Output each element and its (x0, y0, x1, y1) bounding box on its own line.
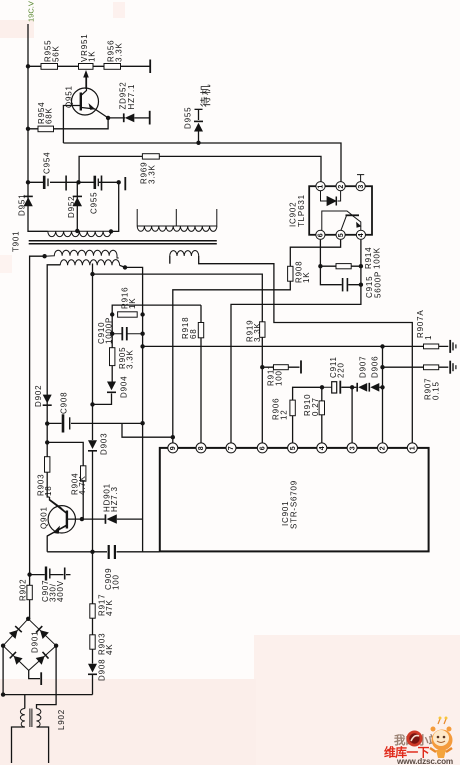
optocoupler IC902 LED (321, 191, 341, 206)
wire Q901 base row y519.1 (67, 518, 143, 520)
wire Q901 emitter (47, 525, 67, 552)
wire top rail y66.3 (28, 65, 150, 67)
IC902 pin 5 (336, 230, 345, 239)
svg-text:1K: 1K (88, 51, 97, 62)
resistor R918 (198, 323, 203, 338)
svg-text:5: 5 (290, 446, 297, 450)
svg-text:C954: C954 (43, 152, 52, 174)
label R969 3.3K (140, 162, 157, 184)
svg-text:3.3K: 3.3K (126, 349, 135, 369)
IC901 pin 4 (317, 443, 327, 453)
wire AC lead right (37, 727, 49, 763)
WIRES1 (28, 24, 448, 619)
diode D906 (369, 383, 380, 392)
bridge rectifier D901 (3, 619, 56, 671)
label R954 68K (37, 102, 54, 124)
transformer T901 secondary winding row2 (60, 260, 119, 274)
capacitor C910 (112, 327, 142, 340)
wire bridge left vertex down (3, 646, 92, 695)
label IC901 STR-S6709 (281, 480, 299, 529)
label R903 18 (37, 474, 54, 496)
optocoupler IC902 box (309, 186, 372, 235)
svg-text:HZ7.1: HZ7.1 (127, 84, 136, 110)
svg-text:Q951: Q951 (65, 85, 74, 108)
resistor R954 (38, 126, 54, 132)
label R956 3.3K (107, 40, 124, 62)
label R906 12 (272, 398, 289, 420)
label R907A 1 (416, 310, 433, 340)
wire row1-right left stub (169, 256, 171, 264)
svg-text:D907: D907 (359, 356, 368, 378)
svg-text:R907A: R907A (416, 310, 425, 338)
svg-text:1: 1 (424, 335, 433, 340)
IC902 pin 6 (316, 230, 325, 239)
optocoupler IC902 phototransistor (322, 211, 361, 230)
label R919 3.3K (246, 320, 263, 342)
wire R906 top row y387.3 (293, 387, 322, 443)
transistor Q951 (72, 77, 109, 118)
label R908 1K (295, 261, 312, 283)
wire IC902 pin6 down (320, 240, 361, 285)
resistor R956 (104, 64, 121, 70)
wire R907A row y347 (383, 345, 449, 347)
diode D908 (88, 664, 97, 675)
svg-text:220: 220 (337, 362, 346, 378)
svg-text:3.3K: 3.3K (253, 322, 262, 342)
watermark mascot (430, 717, 453, 759)
terminal bar after ZD952 (149, 111, 151, 125)
wire D906 to pin2 (379, 386, 382, 388)
svg-text:18: 18 (44, 486, 53, 497)
LABELS1 (12, 34, 441, 529)
svg-text:D902: D902 (34, 385, 43, 407)
diode D955 (194, 109, 203, 132)
wire rowB left lead to D902 R903 (47, 265, 60, 457)
svg-text:4: 4 (358, 233, 365, 237)
inductor L902 windings (20, 709, 41, 728)
label R913 4K (98, 633, 115, 655)
svg-text:1: 1 (318, 185, 325, 189)
svg-text:2: 2 (380, 446, 387, 450)
label C915 5600P (365, 271, 383, 298)
wire primary left lead (30, 256, 45, 619)
svg-text:D904: D904 (120, 376, 129, 398)
label R911 100 (267, 364, 284, 386)
wire D955 stub (198, 110, 200, 143)
wire R919 to pin6 (261, 337, 263, 443)
resistor R955 (41, 64, 58, 70)
wire cap row y182.3 (28, 181, 119, 183)
wire rowB right end (120, 265, 143, 552)
svg-text:4: 4 (319, 446, 326, 450)
svg-text:D952: D952 (67, 196, 76, 218)
svg-text:D908: D908 (98, 659, 107, 681)
wire ZD952 to terminal (134, 117, 149, 119)
wire choke left riser (24, 695, 26, 709)
svg-text:3: 3 (358, 185, 365, 189)
resistor R904 (81, 466, 86, 481)
capacitor C908 (63, 414, 70, 432)
IC901 pin 7 (226, 443, 236, 453)
IC902 pin 3 (356, 182, 365, 191)
svg-text:6: 6 (318, 233, 325, 237)
wire Q951 base branch x63.4 (63, 106, 80, 144)
svg-text:8: 8 (198, 446, 205, 450)
transistor Q901 (47, 500, 75, 537)
wire W2 y156.4 to optocoupler pin1 (79, 156, 321, 182)
label R910 0.27 (303, 394, 320, 416)
svg-text:1K: 1K (302, 272, 311, 283)
svg-text:3.3K: 3.3K (115, 42, 124, 62)
resistor R911 (274, 365, 289, 370)
svg-text:L902: L902 (57, 709, 66, 730)
label R905 3.3K (118, 347, 135, 369)
diode D902 (43, 395, 52, 406)
svg-text:5: 5 (338, 233, 345, 237)
wire IC902 pin4 to pin7 (WC) (231, 240, 361, 443)
label R907 0.15 (424, 378, 441, 400)
transformer T901 core (29, 241, 217, 244)
PATCHES (0, 20, 34, 38)
capacitor C909 (109, 545, 115, 559)
IC902 pin 2 (336, 182, 345, 191)
svg-text:2: 2 (338, 185, 345, 189)
diode D904 (107, 382, 116, 394)
wire W1 y143 to optocoupler pin2 (63, 143, 341, 182)
IC902 pin 1 (316, 182, 325, 191)
wire C907 branch y574.6 (30, 574, 71, 576)
wire bridge bottom stub (29, 670, 40, 678)
svg-text:100: 100 (275, 370, 284, 386)
svg-text:HZ7.3: HZ7.3 (110, 486, 119, 512)
ground R907 (449, 361, 456, 374)
transformer T901 secondary winding row1 (45, 250, 119, 258)
svg-text:400V: 400V (56, 580, 65, 602)
wire bridge right vertex to choke (37, 646, 57, 709)
svg-text:R902: R902 (19, 579, 28, 601)
resistor R908 (288, 266, 293, 281)
wire WE pin9 to R908 (173, 240, 341, 443)
svg-text:T901: T901 (12, 231, 21, 252)
wire WB y345.9 (143, 345, 383, 347)
wire R911 branch y367.2 (262, 366, 299, 368)
wire R904 branch (47, 442, 83, 519)
svg-text:TLP631: TLP631 (297, 194, 306, 227)
transformer T901 primary winding right with leads (137, 209, 217, 231)
resistor R919 (260, 322, 265, 338)
LABELS2 (19, 1, 138, 730)
transformer T901 primary winding left (48, 231, 111, 236)
ground R907A (449, 340, 456, 353)
resistor R902 (27, 585, 32, 599)
label ZD952 HZ7.1 (119, 81, 136, 109)
svg-text:待机: 待机 (199, 83, 212, 107)
wire R954 row y128.8 (28, 118, 108, 129)
diode D907 (356, 383, 367, 392)
wire R916 C910 left chain (111, 315, 113, 382)
arrow VR951 wiper (83, 70, 89, 78)
resistor R914 (336, 264, 351, 269)
wire row1-right to pin1 (WA) (199, 256, 413, 443)
IC901 box (160, 448, 429, 552)
label C907 330/400V (41, 580, 65, 602)
wire C911 to D907 (342, 386, 357, 388)
label IC902 TLP631 (289, 194, 307, 227)
svg-text:9: 9 (170, 446, 177, 450)
IC901 pin 3 (347, 443, 357, 453)
label R904 4.7K (71, 473, 88, 495)
capacitor C954 (44, 176, 66, 191)
svg-text:C908: C908 (60, 392, 69, 414)
wire pin8 below R918 (200, 338, 202, 444)
svg-text:4.7K: 4.7K (78, 475, 87, 495)
svg-text:100K: 100K (373, 247, 382, 269)
capacitor C915 (343, 278, 348, 291)
svg-text:3.3K: 3.3K (148, 164, 157, 184)
wire D904 bottom (93, 393, 112, 404)
svg-text:D955: D955 (184, 107, 193, 129)
resistor R917 (90, 604, 95, 618)
svg-text:68K: 68K (45, 107, 54, 124)
svg-text:56K: 56K (52, 45, 61, 62)
wire Q901 collector (47, 472, 67, 513)
svg-text:D906: D906 (371, 356, 380, 378)
label R955 56K (44, 40, 61, 62)
terminal bar after C955 (124, 177, 126, 190)
terminal bar after R956 (149, 60, 151, 74)
resistor VR951 (79, 64, 94, 70)
wire main left rail x28 (28, 24, 48, 231)
IC901 pin 9 (168, 443, 178, 453)
wire D903 chain x92.5 (92, 404, 94, 694)
resistor R907A (424, 344, 439, 349)
wire C908 row y423.4 (47, 422, 142, 424)
wire D952 vertical (76, 182, 78, 231)
zener ZD952 (123, 113, 134, 122)
wire pin4 R910 (321, 387, 323, 443)
svg-text:D903: D903 (100, 433, 109, 455)
svg-text:STR-S6709: STR-S6709 (290, 480, 299, 529)
wire C955 junction down to primary (111, 182, 119, 231)
LOGO (384, 717, 453, 765)
svg-text:3: 3 (349, 446, 356, 450)
label C911 220 (329, 356, 346, 378)
svg-text:7: 7 (228, 446, 235, 450)
svg-text:D901: D901 (31, 631, 40, 653)
resistor R910 (319, 401, 324, 415)
label VR951 1K (80, 34, 97, 62)
terminal bar after R911 (300, 360, 302, 373)
wire R914 row y266.2 (320, 265, 361, 267)
IC901 pin 6 (257, 443, 267, 453)
wire VR951 wiper stem (85, 77, 87, 89)
svg-text:Q901: Q901 (40, 506, 49, 529)
svg-text:D951: D951 (18, 194, 27, 216)
zener HD901 (105, 514, 117, 523)
IC902 pin 4 (356, 230, 365, 239)
label C909 100 (104, 568, 121, 590)
PARTS1 (27, 64, 439, 650)
label R916 1K (121, 287, 138, 309)
resistor R905 (110, 348, 115, 366)
wire R907 row y367.2 (383, 366, 449, 368)
wire Q951 emitter to ZD952 y117.9 (108, 117, 125, 119)
svg-text:1: 1 (410, 446, 417, 450)
wire pin9 branch to C908 (122, 423, 173, 437)
diode D951 (24, 196, 33, 207)
resistor R969 (142, 154, 159, 159)
svg-text:68: 68 (189, 329, 198, 340)
svg-text:100: 100 (112, 574, 121, 590)
IC901 pin 1 (407, 443, 417, 453)
transformer T901 secondary winding row1-right (170, 251, 199, 256)
capacitor C907 (46, 567, 65, 581)
svg-text:1000P: 1000P (105, 317, 114, 344)
diode D903 (88, 440, 97, 451)
wire pin3 (351, 387, 353, 443)
wire WF y305.1 (112, 305, 201, 322)
optocoupler pin stubs (357, 175, 364, 182)
svg-text:C955: C955 (90, 192, 99, 214)
IC901 pin 8 (196, 443, 206, 453)
resistor R907 (424, 365, 439, 370)
svg-text:0.15: 0.15 (432, 381, 441, 400)
terminal bar below bridge (40, 672, 42, 685)
resistor R906 (290, 400, 295, 416)
svg-text:0.27: 0.27 (311, 397, 320, 416)
capacitor C955 (95, 176, 102, 191)
wire C909 row y551.8 (47, 551, 159, 553)
label R917 47K (98, 594, 115, 616)
WIRES2 (3, 77, 159, 763)
svg-text:47K: 47K (105, 599, 114, 616)
IC901 pin 2 (378, 443, 388, 453)
svg-text:www.dzsc.com: www.dzsc.com (396, 757, 453, 765)
resistor R916 (118, 312, 138, 317)
wire AC lead left (12, 727, 25, 763)
svg-text:19C.V: 19C.V (27, 1, 36, 22)
label R914 100K (364, 247, 382, 269)
svg-text:6: 6 (260, 446, 267, 450)
label R918 68 (181, 317, 198, 339)
svg-text:4K: 4K (105, 644, 114, 655)
resistor R913 (90, 635, 95, 649)
watermark red badge (407, 731, 423, 747)
wire pin2 (382, 346, 384, 443)
label C910 1000P (97, 317, 114, 344)
label HD901 HZ7.3 (103, 483, 120, 512)
svg-text:12: 12 (280, 410, 289, 421)
wire WD tap to R919 (93, 264, 263, 405)
IC901 pin 5 (288, 443, 298, 453)
capacitor C911 (322, 381, 352, 394)
svg-text:1K: 1K (128, 298, 137, 309)
svg-text:5600P: 5600P (374, 271, 383, 298)
resistor R903 (45, 457, 50, 473)
diode D952 (73, 196, 82, 207)
